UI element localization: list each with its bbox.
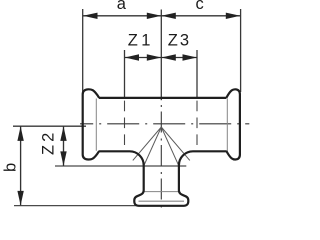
dimension line Z1/Z3 xyxy=(125,57,198,59)
svg-text:a: a xyxy=(117,0,127,13)
arrow Z3 right xyxy=(183,54,198,60)
socket stop dashed line right (inside body) xyxy=(196,101,198,152)
arrow Z2 bottom xyxy=(60,151,66,166)
arrow Z3 left xyxy=(161,54,176,60)
svg-text:Z: Z xyxy=(168,31,178,49)
arrow a left xyxy=(83,13,98,19)
socket mouth inner line bottom xyxy=(139,200,185,202)
tee body top line xyxy=(99,97,226,99)
extension line bottom face (b) xyxy=(14,205,139,207)
arrow Z2 top xyxy=(60,126,66,140)
svg-text:c: c xyxy=(196,0,204,13)
ray right inner xyxy=(161,127,178,166)
dimension line Z2 xyxy=(63,126,65,165)
right bead and end face xyxy=(226,89,240,159)
centerline vertical (branch axis) xyxy=(160,100,162,212)
extension line center top (shared a/c, Z1/Z3) xyxy=(160,10,162,101)
extension line branch socket stop (Z2) xyxy=(55,165,186,167)
arrow c right xyxy=(226,13,241,19)
arrow Z1 right xyxy=(147,54,162,60)
left bead and end face xyxy=(83,89,100,159)
ray left outer xyxy=(133,127,162,160)
extension line left end face (for a) xyxy=(82,9,84,92)
arrow c left xyxy=(161,13,176,19)
ray right outer xyxy=(161,127,190,160)
bead shoulder line left xyxy=(95,99,97,151)
centerline horizontal (pipe axis) xyxy=(80,123,249,125)
socket stop dashed line left (inside body) xyxy=(124,101,126,152)
bead shoulder line branch xyxy=(144,191,179,193)
body bottom left with fillet into branch xyxy=(99,151,227,206)
extension line right end face (for c) xyxy=(240,9,242,92)
extension line Z3 socket stop xyxy=(196,50,198,98)
arrow b bottom xyxy=(17,191,23,206)
dimension line a/c xyxy=(83,15,240,17)
arrow a right xyxy=(147,13,162,19)
bead shoulder line right xyxy=(226,99,228,151)
svg-text:3: 3 xyxy=(180,31,189,49)
svg-text:b: b xyxy=(2,163,20,172)
svg-text:1: 1 xyxy=(141,32,150,50)
ray left inner xyxy=(144,127,161,166)
arrow Z1 left xyxy=(125,54,140,60)
arrow b top xyxy=(17,126,23,140)
extension line Z1 socket stop xyxy=(124,50,126,98)
dimension line b xyxy=(20,126,22,205)
svg-text:Z: Z xyxy=(128,32,138,50)
extension line top (b / Z2, at centerline level) xyxy=(13,125,86,127)
